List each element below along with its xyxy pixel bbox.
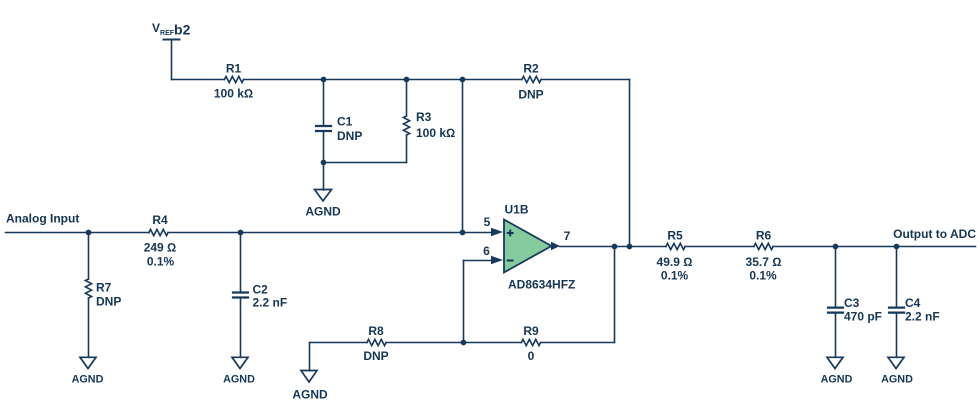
svg-text:C3: C3 <box>844 296 860 310</box>
resistor R5 <box>666 243 685 249</box>
svg-text:R2: R2 <box>523 62 539 76</box>
svg-text:AGND: AGND <box>72 374 104 386</box>
svg-text:AGND: AGND <box>292 388 328 402</box>
wire C2 stem bottom <box>240 299 242 358</box>
svg-text:U1B: U1B <box>505 203 529 217</box>
svg-text:7: 7 <box>564 229 571 243</box>
wire output bus middle <box>685 246 754 248</box>
pin 5 arrow <box>491 228 503 236</box>
wire top bus left <box>172 79 225 81</box>
svg-text:5: 5 <box>484 215 491 229</box>
wire AGND stem bottom left <box>309 343 311 371</box>
wire C1-R3 connector <box>324 162 407 164</box>
node output R2 <box>627 244 633 250</box>
wire pin6 vertical <box>463 261 465 343</box>
wire feedback bottom bus right <box>541 342 615 344</box>
wire C1 stem top <box>323 80 325 125</box>
wire C4 stem bottom <box>896 314 898 358</box>
svg-text:0.1%: 0.1% <box>749 269 777 283</box>
op-amp U1B <box>504 220 552 273</box>
ground AGND under C1 <box>315 190 332 202</box>
svg-text:AGND: AGND <box>305 205 341 219</box>
svg-text:C2: C2 <box>253 283 269 297</box>
ground AGND under C3 <box>827 357 843 368</box>
wire output bus right <box>773 246 975 248</box>
svg-text:R7: R7 <box>96 281 112 295</box>
ground AGND feedback <box>301 371 317 383</box>
svg-text:0: 0 <box>528 349 535 363</box>
capacitor C2 <box>233 293 248 298</box>
svg-text:R9: R9 <box>523 324 539 338</box>
wire top bus right <box>541 79 629 81</box>
capacitor C1 <box>316 126 331 131</box>
wire R2 feedback vertical <box>629 80 631 247</box>
capacitor C4 <box>889 308 904 313</box>
resistor R9 <box>521 339 540 345</box>
svg-text:100 kΩ: 100 kΩ <box>214 87 253 101</box>
svg-text:AD8634HFZ: AD8634HFZ <box>508 278 575 292</box>
ground AGND under C2 <box>232 357 248 368</box>
svg-text:2.2 nF: 2.2 nF <box>905 310 940 324</box>
wire feedback bottom bus middle <box>386 342 521 344</box>
wire analog input bus <box>6 232 149 234</box>
resistor R4 <box>149 229 168 235</box>
svg-text:R1: R1 <box>226 62 242 76</box>
wire R3 stem bottom <box>406 135 408 162</box>
wire feedback bottom bus left <box>310 342 367 344</box>
node C2 <box>238 230 244 236</box>
svg-text:100 kΩ: 100 kΩ <box>416 126 455 140</box>
svg-text:Output to ADC: Output to ADC <box>893 227 976 241</box>
ground AGND under C4 <box>888 357 904 368</box>
svg-text:Analog Input: Analog Input <box>6 212 79 226</box>
capacitor C3 <box>828 308 843 313</box>
resistor R7 <box>85 279 91 298</box>
node pin5 bias <box>460 230 466 236</box>
svg-text:DNP: DNP <box>96 295 121 309</box>
svg-text:470 pF: 470 pF <box>844 310 882 324</box>
svg-text:DNP: DNP <box>363 349 388 363</box>
svg-text:AGND: AGND <box>821 374 853 386</box>
svg-text:49.9 Ω: 49.9 Ω <box>657 255 693 269</box>
ground AGND under R7 <box>80 357 96 368</box>
wire top bus middle <box>244 79 522 81</box>
wire C2 stem top <box>240 233 242 292</box>
wire C3 stem top <box>835 247 837 307</box>
pin 7 output arrow <box>551 242 560 250</box>
node output R9 <box>612 244 618 250</box>
svg-text:R8: R8 <box>368 324 384 338</box>
svg-text:0.1%: 0.1% <box>147 255 175 269</box>
resistor R8 <box>367 339 386 345</box>
svg-text:AGND: AGND <box>881 374 913 386</box>
node top C1 <box>321 77 327 83</box>
wire feedback to output vertical <box>614 247 616 343</box>
svg-text:C4: C4 <box>905 296 921 310</box>
svg-text:6: 6 <box>483 244 490 258</box>
node C1 bottom <box>321 160 327 166</box>
wire C3 stem bottom <box>835 314 837 358</box>
pin 6 arrow <box>491 256 503 264</box>
resistor R2 <box>522 76 541 82</box>
node C4 <box>894 244 900 250</box>
wire pin6 horizontal <box>464 260 492 262</box>
svg-text:R5: R5 <box>667 229 683 243</box>
node C3 <box>833 244 839 250</box>
svg-text:C1: C1 <box>337 115 353 129</box>
svg-text:R6: R6 <box>756 229 772 243</box>
svg-text:AGND: AGND <box>223 374 255 386</box>
wire R3 stem top <box>406 80 408 116</box>
node top bias <box>460 77 466 83</box>
wire R7 stem bottom <box>88 298 90 357</box>
node top R3 <box>404 77 410 83</box>
power symbol VREF <box>164 40 180 80</box>
svg-text:0.1%: 0.1% <box>661 269 689 283</box>
resistor R1 <box>224 76 243 82</box>
resistor R3 <box>403 116 409 135</box>
wire R7 stem top <box>88 233 90 279</box>
svg-text:R3: R3 <box>416 110 432 124</box>
svg-text:DNP: DNP <box>518 88 543 102</box>
node R7 <box>86 230 92 236</box>
svg-text:R4: R4 <box>152 213 168 227</box>
wire output bus left <box>560 246 666 248</box>
svg-text:249 Ω: 249 Ω <box>144 241 177 255</box>
node feedback mid <box>461 340 467 346</box>
svg-text:2.2 nF: 2.2 nF <box>253 296 288 310</box>
svg-text:DNP: DNP <box>337 129 362 143</box>
wire bias vertical <box>462 80 464 233</box>
wire C1 stem bottom <box>323 132 325 190</box>
resistor R6 <box>754 243 773 249</box>
svg-text:35.7 Ω: 35.7 Ω <box>746 255 782 269</box>
wire input bus to opamp <box>168 232 491 234</box>
wire C4 stem top <box>896 247 898 307</box>
